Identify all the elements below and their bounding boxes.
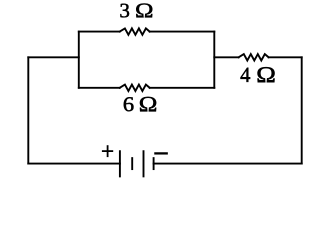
- battery negative terminal marker (-): [155, 152, 166, 154]
- wire: outer left vertical: [27, 57, 29, 163]
- wire: right connector to series resistor: [214, 56, 238, 58]
- wire: bottom branch left lead: [79, 87, 120, 89]
- battery BT1 positive long plate: [119, 151, 121, 176]
- label: ohm symbol of R2: [140, 97, 156, 111]
- label: ohm symbol of R3: [258, 67, 275, 82]
- wire: left connector horizontal to parallel box: [28, 56, 79, 58]
- resistor R3 (4 ohm): [239, 54, 269, 60]
- label: 6 (value of R2): [124, 97, 134, 111]
- label: 4 (value of R3): [241, 68, 251, 82]
- wire: from R3 to top-right corner: [269, 56, 302, 58]
- battery BT1 negative short plate: [153, 158, 155, 169]
- wire: bottom right segment from battery: [154, 163, 302, 165]
- battery BT1 short plate 1: [131, 158, 133, 169]
- battery BT1 long plate 2: [143, 151, 145, 176]
- node B (parallel box right junction): [213, 32, 215, 88]
- resistor R2 (6 ohm): [120, 85, 150, 91]
- wire: bottom left segment to battery: [28, 163, 120, 165]
- wire: top branch left lead: [79, 31, 120, 33]
- wire: top branch right lead: [150, 31, 215, 33]
- battery positive terminal marker (+): [103, 146, 113, 156]
- wire: outer right vertical: [301, 57, 303, 163]
- resistor R1 (3 ohm): [120, 28, 150, 34]
- label: 3 (value of R1): [120, 4, 129, 18]
- label: ohm symbol of R1: [136, 3, 152, 17]
- wire: bottom branch right lead: [150, 87, 215, 89]
- node A (parallel box left junction): [78, 32, 80, 88]
